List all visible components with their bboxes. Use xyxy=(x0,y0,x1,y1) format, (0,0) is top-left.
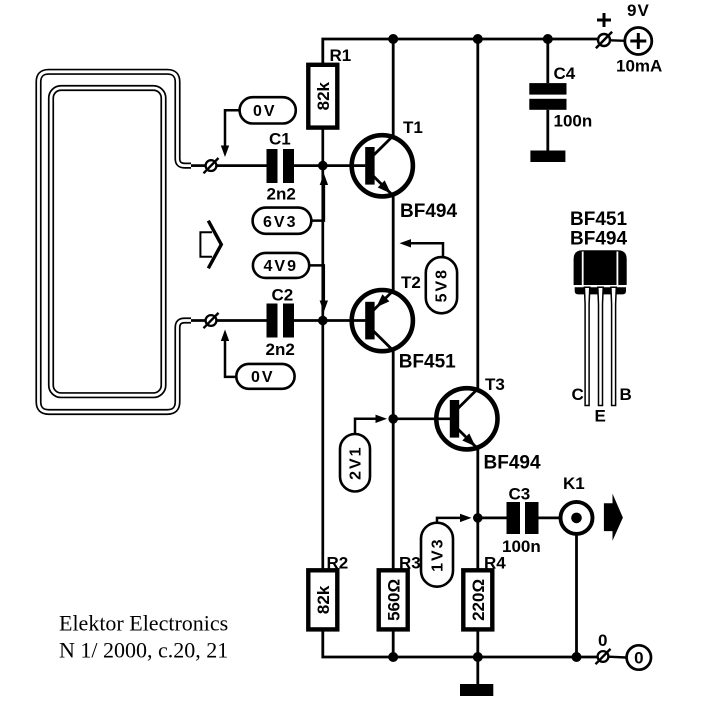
svg-text:T1: T1 xyxy=(403,118,423,137)
battery symbol 9V xyxy=(616,1,662,76)
capacitor C3 xyxy=(502,485,541,557)
wire R2 bottom + ground rail xyxy=(323,629,597,657)
antenna loop L1 outer turn xyxy=(39,72,192,412)
resistor R2 xyxy=(308,554,348,630)
svg-text:0: 0 xyxy=(598,631,607,650)
terminal input 2 xyxy=(204,313,219,328)
svg-text:6V3: 6V3 xyxy=(263,214,297,231)
TO-92 package BF451/BF494 xyxy=(570,209,632,426)
svg-text:C4: C4 xyxy=(554,64,576,83)
capacitor C1 xyxy=(267,130,296,204)
pill 1V3 xyxy=(421,514,472,587)
terminal input 1 xyxy=(204,158,219,173)
wire C3 to K1 xyxy=(539,517,577,520)
svg-text:C2: C2 xyxy=(272,286,294,305)
svg-text:2n2: 2n2 xyxy=(267,185,296,204)
svg-text:BF494: BF494 xyxy=(570,229,627,250)
pill 2V1 xyxy=(340,415,387,492)
svg-text:B: B xyxy=(620,385,632,404)
wire T1 emitter to T2 emitter xyxy=(392,196,395,292)
node ground rail R4 xyxy=(473,652,483,662)
svg-text:2n2: 2n2 xyxy=(266,340,295,359)
node top rail T1 xyxy=(388,34,398,44)
svg-text:C1: C1 xyxy=(269,130,291,149)
svg-text:BF494: BF494 xyxy=(484,453,541,474)
resistor R1 xyxy=(308,46,351,128)
svg-text:R3: R3 xyxy=(399,554,421,573)
svg-text:R2: R2 xyxy=(327,554,349,573)
wire K1 down to ground rail xyxy=(575,534,578,657)
resistor R3 xyxy=(379,554,421,630)
svg-text:N 1/ 2000, c.20, 21: N 1/ 2000, c.20, 21 xyxy=(59,638,228,663)
svg-text:560Ω: 560Ω xyxy=(385,579,404,621)
antenna loop L1 inner turn xyxy=(51,88,164,395)
pill 5V8 xyxy=(400,239,458,313)
0 reference circle xyxy=(627,645,651,669)
wire terminal1 to C1 xyxy=(217,164,267,167)
terminal +9V xyxy=(596,13,612,48)
wire R4 bottom xyxy=(476,629,479,657)
transistor T2 BF451 xyxy=(352,273,456,373)
node top rail mid xyxy=(473,34,483,44)
C4 ground bar xyxy=(530,151,565,163)
terminal 0 xyxy=(596,631,611,664)
svg-text:T2: T2 xyxy=(401,273,421,292)
svg-text:0: 0 xyxy=(634,649,643,668)
output arrow xyxy=(604,494,623,541)
wire R3 bottom xyxy=(392,629,395,657)
wire antenna to terminal 2 xyxy=(191,319,206,322)
svg-text:0V: 0V xyxy=(253,103,277,120)
node C2 junction xyxy=(318,316,328,326)
source credit text xyxy=(59,611,228,663)
svg-text:E: E xyxy=(595,407,606,426)
pill 0V bottom xyxy=(221,330,295,389)
svg-text:C: C xyxy=(572,385,584,404)
svg-text:0V: 0V xyxy=(251,369,275,386)
svg-text:220Ω: 220Ω xyxy=(469,579,488,621)
wire antenna to terminal 1 xyxy=(191,164,206,167)
wire R1 top to rail xyxy=(323,39,597,65)
wire T1 collector to top rail xyxy=(392,39,395,136)
wire terminal2 to C2 xyxy=(217,319,267,322)
svg-text:9V: 9V xyxy=(627,1,650,20)
package lead B xyxy=(611,287,616,405)
svg-text:BF451: BF451 xyxy=(570,209,627,230)
node output junction xyxy=(473,513,483,523)
svg-text:1V3: 1V3 xyxy=(430,537,447,571)
transistor T1 BF494 xyxy=(352,118,458,222)
capacitor C4 xyxy=(529,39,592,151)
svg-text:BF451: BF451 xyxy=(399,352,456,373)
resistor R4 xyxy=(463,554,506,630)
connector K1 xyxy=(561,474,593,534)
svg-text:BF494: BF494 xyxy=(400,201,457,222)
label 0V arrow (top) xyxy=(225,110,240,146)
svg-text:R4: R4 xyxy=(484,554,506,573)
capacitor C2 xyxy=(266,286,295,360)
pill 4V9 xyxy=(253,253,328,312)
wire vertical bias rail (C1 node to C2 node to R2) xyxy=(321,166,324,571)
node top rail C4 xyxy=(543,34,553,44)
wire T2 collector down to R3 xyxy=(392,350,395,570)
pill 0V top xyxy=(240,97,296,123)
package lead E xyxy=(598,287,603,405)
svg-text:2V1: 2V1 xyxy=(348,445,365,479)
svg-text:100n: 100n xyxy=(502,537,541,556)
wire R1 bottom to node xyxy=(321,128,324,166)
node C1/R1 junction xyxy=(318,161,328,171)
input arrow xyxy=(200,221,221,269)
transistor T3 BF494 xyxy=(436,375,541,474)
svg-text:C3: C3 xyxy=(509,485,531,504)
svg-text:K1: K1 xyxy=(563,474,585,493)
wire terminal to battery xyxy=(611,39,626,42)
svg-text:82k: 82k xyxy=(314,81,333,110)
wire C1 to T1 base xyxy=(294,164,365,167)
svg-text:5V8: 5V8 xyxy=(434,268,451,302)
wire terminal to 0 circle xyxy=(609,656,627,659)
svg-text:82k: 82k xyxy=(314,585,333,614)
svg-text:4V9: 4V9 xyxy=(264,258,298,275)
node ground rail R3 xyxy=(388,652,398,662)
wire T3 emitter down to R4 xyxy=(476,449,479,571)
ground stub xyxy=(476,657,479,684)
wire C2 to T2 base xyxy=(294,319,365,322)
svg-text:Elektor Electronics: Elektor Electronics xyxy=(59,611,228,636)
svg-text:100n: 100n xyxy=(554,112,593,131)
svg-text:R1: R1 xyxy=(330,46,352,65)
wire T3 collector to top rail xyxy=(476,39,479,389)
ground symbol xyxy=(460,684,493,696)
wire to T3 base xyxy=(393,417,450,420)
svg-text:T3: T3 xyxy=(485,375,505,394)
wire output junction to C3 xyxy=(478,517,507,520)
node T3 base junction xyxy=(388,414,398,424)
pill 6V3 xyxy=(253,174,329,234)
node ground rail K1 xyxy=(572,652,582,662)
svg-text:10mA: 10mA xyxy=(616,57,662,76)
package lead C xyxy=(584,287,589,405)
